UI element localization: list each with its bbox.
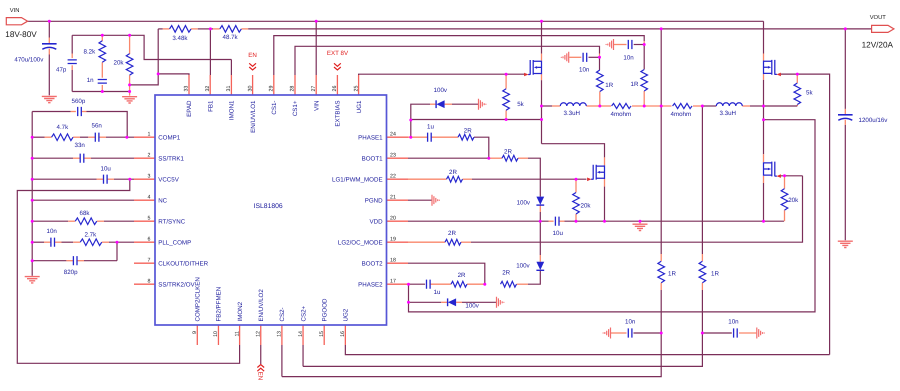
- svg-text:3.48k: 3.48k: [172, 35, 188, 42]
- svg-text:2R: 2R: [464, 127, 472, 134]
- svg-text:10n: 10n: [47, 228, 58, 235]
- svg-text:8.2k: 8.2k: [84, 49, 97, 56]
- svg-text:47p: 47p: [56, 67, 67, 74]
- svg-text:10n: 10n: [623, 54, 634, 61]
- svg-text:6: 6: [148, 236, 151, 242]
- svg-text:33: 33: [184, 86, 190, 92]
- svg-text:9: 9: [192, 331, 198, 334]
- svg-text:7: 7: [148, 257, 151, 263]
- svg-text:100v: 100v: [465, 303, 479, 310]
- svg-text:ISL81806: ISL81806: [254, 203, 283, 210]
- svg-text:COMP2/CLKEN: COMP2/CLKEN: [195, 277, 202, 321]
- svg-text:VDD: VDD: [370, 218, 384, 225]
- svg-text:68k: 68k: [80, 210, 91, 217]
- svg-text:56n: 56n: [92, 122, 103, 129]
- svg-text:CS2+: CS2+: [300, 305, 307, 321]
- svg-text:10n: 10n: [625, 318, 636, 325]
- svg-text:4mohm: 4mohm: [611, 111, 632, 118]
- svg-text:1u: 1u: [427, 124, 434, 131]
- svg-text:100v: 100v: [517, 200, 531, 207]
- svg-text:10n: 10n: [579, 67, 590, 74]
- svg-text:EN/UV/LO1: EN/UV/LO1: [250, 100, 257, 133]
- svg-text:15: 15: [319, 331, 325, 337]
- svg-text:IMON2: IMON2: [237, 301, 244, 321]
- svg-text:CS1+: CS1+: [292, 100, 299, 116]
- svg-text:100v: 100v: [434, 87, 448, 94]
- svg-text:560p: 560p: [72, 98, 86, 105]
- svg-text:3.3uH: 3.3uH: [564, 110, 581, 117]
- svg-text:VCC5V: VCC5V: [158, 176, 180, 183]
- svg-text:17: 17: [390, 278, 396, 284]
- svg-text:26: 26: [332, 86, 338, 92]
- svg-text:16: 16: [340, 331, 346, 337]
- svg-text:12V/20A: 12V/20A: [862, 40, 894, 49]
- svg-text:1u: 1u: [434, 289, 441, 296]
- svg-text:UG1: UG1: [356, 100, 363, 113]
- svg-text:10u: 10u: [101, 165, 112, 172]
- svg-text:EN: EN: [248, 52, 257, 59]
- svg-text:UG2: UG2: [343, 308, 350, 321]
- svg-text:3: 3: [148, 173, 151, 179]
- svg-text:2R: 2R: [448, 230, 456, 237]
- svg-text:32: 32: [205, 86, 211, 92]
- svg-text:10n: 10n: [728, 318, 739, 325]
- svg-text:20k: 20k: [114, 60, 125, 67]
- svg-text:COMP1: COMP1: [158, 134, 181, 141]
- svg-text:LG1/PWM_MODE: LG1/PWM_MODE: [332, 176, 383, 183]
- svg-text:NC: NC: [158, 197, 167, 204]
- svg-text:470u/100v: 470u/100v: [14, 57, 44, 64]
- svg-text:20k: 20k: [581, 203, 592, 210]
- svg-text:2.7k: 2.7k: [85, 232, 98, 239]
- svg-text:820p: 820p: [64, 269, 78, 276]
- svg-text:EPAD: EPAD: [186, 100, 193, 117]
- svg-text:5k: 5k: [806, 90, 813, 97]
- svg-text:13: 13: [277, 331, 283, 337]
- svg-text:1: 1: [148, 131, 151, 137]
- svg-text:SS/TRK2/OV: SS/TRK2/OV: [158, 281, 195, 288]
- svg-text:PHASE1: PHASE1: [358, 134, 383, 141]
- svg-text:2R: 2R: [504, 148, 512, 155]
- svg-text:1R: 1R: [668, 271, 676, 278]
- svg-text:EXT 8V: EXT 8V: [327, 50, 349, 57]
- svg-text:4: 4: [148, 194, 151, 200]
- svg-text:CLKOUT/DITHER: CLKOUT/DITHER: [158, 260, 208, 267]
- svg-text:27: 27: [311, 86, 317, 92]
- svg-text:10u: 10u: [553, 230, 564, 237]
- svg-text:VOUT: VOUT: [870, 14, 887, 21]
- svg-text:PHASE2: PHASE2: [358, 281, 383, 288]
- svg-text:SS/TRK1: SS/TRK1: [158, 155, 184, 162]
- svg-text:23: 23: [390, 152, 396, 158]
- svg-text:18V-80V: 18V-80V: [5, 30, 37, 39]
- svg-text:VIN: VIN: [313, 101, 320, 111]
- svg-text:24: 24: [390, 131, 396, 137]
- svg-text:20: 20: [390, 215, 396, 221]
- svg-text:IMON1: IMON1: [229, 100, 236, 120]
- svg-text:3.3uH: 3.3uH: [720, 110, 737, 117]
- svg-text:BOOT2: BOOT2: [362, 260, 384, 267]
- svg-text:VIN: VIN: [10, 8, 20, 14]
- svg-text:25: 25: [353, 86, 359, 92]
- svg-text:PGND: PGND: [365, 197, 383, 204]
- svg-text:CS1-: CS1-: [271, 101, 278, 115]
- svg-text:48.7k: 48.7k: [223, 34, 239, 41]
- svg-text:18: 18: [390, 257, 396, 263]
- svg-text:20k: 20k: [788, 197, 799, 204]
- svg-text:1n: 1n: [87, 77, 94, 84]
- svg-text:4.7k: 4.7k: [57, 124, 70, 131]
- svg-text:10: 10: [213, 331, 219, 337]
- svg-text:100v: 100v: [516, 263, 530, 270]
- svg-text:2R: 2R: [502, 270, 510, 277]
- svg-text:1200u/16v: 1200u/16v: [859, 117, 889, 124]
- svg-text:1R: 1R: [631, 81, 639, 88]
- svg-text:PGOOD: PGOOD: [321, 298, 328, 322]
- svg-text:29: 29: [269, 86, 275, 92]
- svg-text:BOOT1: BOOT1: [362, 155, 384, 162]
- svg-text:LG2/OC_MODE: LG2/OC_MODE: [338, 239, 383, 246]
- svg-text:8: 8: [148, 278, 151, 284]
- svg-text:5k: 5k: [517, 101, 524, 108]
- svg-text:1R: 1R: [711, 271, 719, 278]
- svg-text:30: 30: [247, 86, 253, 92]
- svg-text:1R: 1R: [605, 82, 613, 89]
- svg-text:RT/SYNC: RT/SYNC: [158, 218, 186, 225]
- svg-text:11: 11: [234, 331, 240, 337]
- svg-text:21: 21: [390, 194, 396, 200]
- svg-text:EXTBIAS: EXTBIAS: [335, 101, 342, 127]
- svg-text:EN: EN: [257, 372, 264, 381]
- svg-text:4mohm: 4mohm: [671, 111, 692, 118]
- svg-text:CS2-: CS2-: [279, 307, 286, 321]
- svg-text:PLL_COMP: PLL_COMP: [158, 239, 191, 246]
- svg-text:14: 14: [298, 331, 304, 337]
- svg-text:FB2/PFMEN: FB2/PFMEN: [216, 287, 223, 322]
- svg-text:33n: 33n: [75, 142, 86, 149]
- svg-text:2R: 2R: [458, 272, 466, 279]
- svg-text:31: 31: [226, 86, 232, 92]
- svg-text:22: 22: [390, 173, 396, 179]
- svg-text:2: 2: [148, 152, 151, 158]
- svg-text:19: 19: [390, 236, 396, 242]
- svg-text:2R: 2R: [449, 169, 457, 176]
- svg-text:5: 5: [148, 215, 151, 221]
- svg-text:FB1: FB1: [207, 100, 214, 112]
- svg-text:28: 28: [290, 86, 296, 92]
- svg-text:EN/UV/LO2: EN/UV/LO2: [258, 289, 265, 322]
- svg-text:12: 12: [255, 331, 261, 337]
